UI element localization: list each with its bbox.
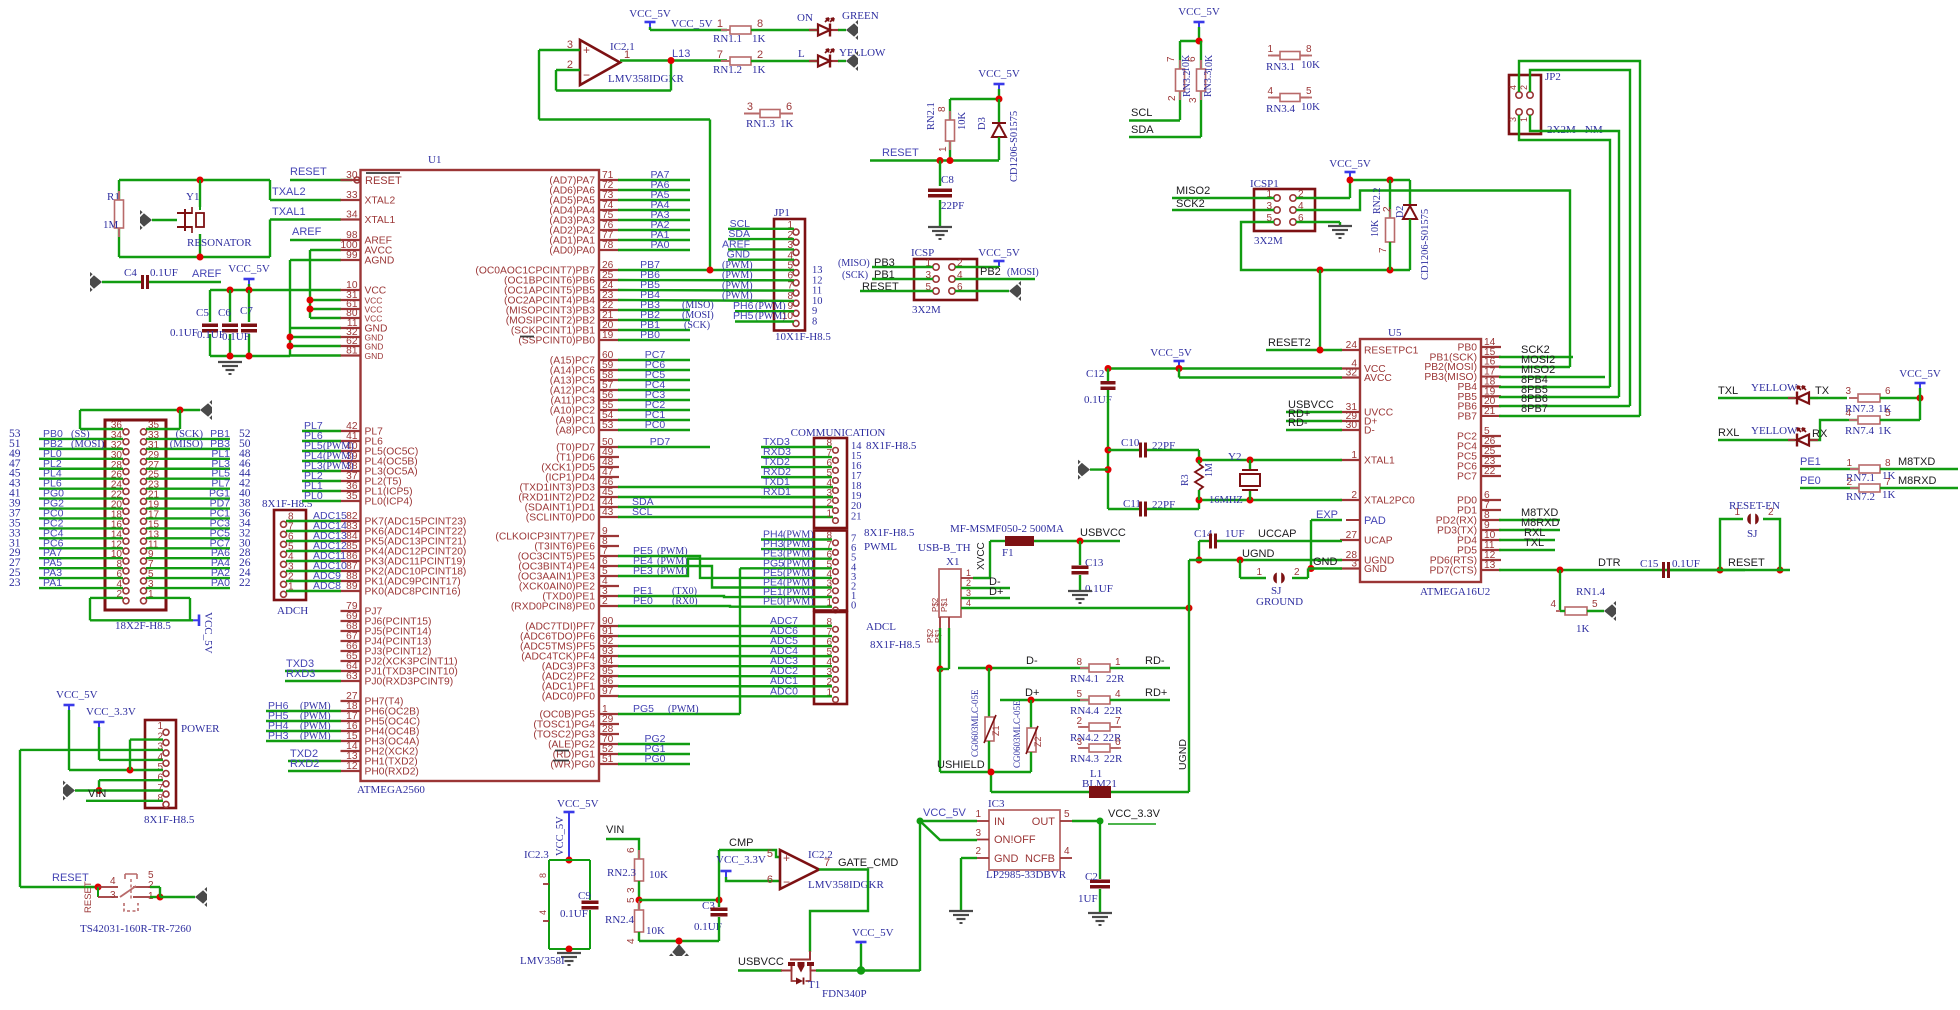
svg-text:RN4.2: RN4.2 — [1070, 732, 1099, 744]
svg-text:2: 2 — [148, 880, 154, 891]
svg-text:Y1: Y1 — [186, 191, 199, 203]
svg-text:TS42031-160R-TR-7260: TS42031-160R-TR-7260 — [80, 923, 192, 935]
svg-text:(MISO): (MISO) — [170, 439, 204, 450]
svg-text:D3: D3 — [977, 117, 988, 130]
svg-text:F1: F1 — [1002, 547, 1014, 559]
svg-text:TXL: TXL — [1718, 385, 1738, 397]
svg-text:ATMEGA2560: ATMEGA2560 — [357, 784, 425, 796]
svg-text:4: 4 — [626, 938, 637, 944]
svg-text:RN7.4: RN7.4 — [1845, 425, 1875, 437]
svg-text:4: 4 — [1508, 85, 1518, 90]
svg-text:VCC_5V: VCC_5V — [629, 8, 671, 20]
svg-text:IN: IN — [994, 816, 1005, 828]
svg-text:UGND: UGND — [1242, 548, 1274, 560]
svg-text:C4: C4 — [124, 267, 137, 279]
svg-text:+: + — [783, 851, 790, 865]
svg-text:2: 2 — [966, 578, 971, 588]
svg-text:2: 2 — [1768, 507, 1774, 518]
svg-text:(MOSI): (MOSI) — [71, 439, 105, 450]
svg-text:PB7: PB7 — [1458, 411, 1478, 422]
svg-text:C12: C12 — [1086, 368, 1104, 380]
svg-text:89: 89 — [346, 581, 358, 592]
svg-text:1: 1 — [1734, 507, 1740, 518]
svg-text:8: 8 — [538, 873, 548, 878]
svg-text:PK0(ADC8PCINT16): PK0(ADC8PCINT16) — [365, 587, 461, 598]
svg-text:AVCC: AVCC — [1364, 373, 1392, 384]
svg-text:SDA: SDA — [1131, 124, 1154, 136]
svg-text:16MHZ: 16MHZ — [1209, 495, 1243, 506]
svg-text:VCC_5V: VCC_5V — [56, 689, 98, 701]
svg-text:1: 1 — [1351, 450, 1357, 461]
svg-text:35: 35 — [346, 491, 358, 502]
svg-text:RN1.1: RN1.1 — [713, 33, 742, 45]
svg-text:VCC_3.3V: VCC_3.3V — [86, 706, 136, 718]
svg-text:IC3: IC3 — [988, 798, 1005, 810]
svg-text:10K: 10K — [1370, 219, 1381, 237]
svg-text:RN2.1: RN2.1 — [926, 102, 937, 130]
svg-text:VCC_5V: VCC_5V — [202, 612, 214, 654]
svg-text:TXAL1: TXAL1 — [272, 206, 306, 218]
svg-text:43: 43 — [602, 507, 614, 518]
svg-text:UGND: UGND — [1177, 739, 1189, 770]
svg-text:RN1.4: RN1.4 — [1576, 586, 1606, 598]
svg-text:PL0(ICP4): PL0(ICP4) — [365, 497, 413, 508]
svg-text:8X1F-H8.5: 8X1F-H8.5 — [144, 814, 195, 826]
svg-text:1: 1 — [1256, 567, 1262, 578]
svg-text:CMP: CMP — [729, 837, 753, 849]
svg-text:23: 23 — [9, 577, 21, 589]
svg-text:19: 19 — [602, 330, 614, 341]
svg-text:13: 13 — [1484, 560, 1496, 571]
svg-text:VCC: VCC — [365, 314, 383, 324]
svg-text:3X2M: 3X2M — [912, 304, 941, 316]
svg-text:SJ: SJ — [1747, 528, 1758, 540]
svg-text:PA0: PA0 — [211, 577, 230, 589]
svg-text:2: 2 — [1846, 477, 1852, 488]
svg-text:1: 1 — [938, 146, 949, 152]
svg-text:5: 5 — [767, 848, 773, 860]
svg-text:18X2F-H8.5: 18X2F-H8.5 — [115, 620, 171, 632]
svg-text:1: 1 — [1115, 657, 1121, 668]
svg-text:P$1: P$1 — [940, 597, 949, 612]
svg-text:C6: C6 — [218, 307, 231, 319]
svg-text:RXD3: RXD3 — [286, 668, 315, 680]
svg-text:VCC_3.3V: VCC_3.3V — [1108, 808, 1161, 820]
svg-text:(SCLINT0)PD0: (SCLINT0)PD0 — [526, 513, 596, 524]
svg-text:YELLOW: YELLOW — [1751, 425, 1798, 437]
svg-text:XTAL1: XTAL1 — [365, 215, 396, 226]
svg-text:2: 2 — [1294, 567, 1300, 578]
svg-text:RESET: RESET — [83, 881, 94, 913]
svg-text:RN1.3: RN1.3 — [746, 118, 776, 130]
svg-text:XTAL2: XTAL2 — [365, 196, 396, 207]
svg-text:8X1F-H8.5: 8X1F-H8.5 — [866, 440, 917, 452]
svg-text:27: 27 — [1346, 530, 1358, 541]
svg-text:GROUND: GROUND — [1256, 596, 1303, 608]
svg-text:RN1.2: RN1.2 — [713, 64, 742, 76]
svg-text:PE0: PE0 — [1800, 475, 1821, 487]
svg-text:XTAL2PC0: XTAL2PC0 — [1364, 496, 1415, 507]
svg-text:0.1UF: 0.1UF — [560, 908, 588, 920]
svg-text:RN4.4: RN4.4 — [1070, 705, 1100, 717]
svg-text:VCC_5V: VCC_5V — [557, 798, 599, 810]
svg-text:L13: L13 — [672, 48, 690, 60]
svg-text:5: 5 — [626, 897, 637, 903]
svg-text:ON: ON — [797, 12, 813, 24]
svg-text:2: 2 — [602, 596, 608, 607]
svg-text:C15: C15 — [1640, 558, 1659, 570]
svg-text:(A8)PC0: (A8)PC0 — [556, 426, 596, 437]
svg-text:RN2.4: RN2.4 — [605, 914, 635, 926]
svg-text:10K: 10K — [1301, 59, 1320, 71]
svg-text:LP2985-33DBVR: LP2985-33DBVR — [986, 869, 1067, 881]
svg-text:AREF: AREF — [192, 268, 222, 280]
svg-text:CD1206-S01575: CD1206-S01575 — [1420, 209, 1431, 280]
svg-text:VCC_3.3V: VCC_3.3V — [716, 854, 766, 866]
svg-text:10K: 10K — [646, 925, 665, 937]
svg-text:T1: T1 — [808, 979, 820, 991]
svg-text:4: 4 — [1550, 599, 1556, 610]
svg-text:Z1: Z1 — [991, 725, 1001, 736]
svg-text:RN4.3: RN4.3 — [1070, 753, 1100, 765]
svg-text:8: 8 — [157, 793, 163, 804]
svg-text:5: 5 — [1064, 809, 1070, 820]
svg-text:4: 4 — [538, 910, 548, 915]
svg-text:VCC_5V: VCC_5V — [1899, 368, 1941, 380]
svg-text:RESONATOR: RESONATOR — [187, 237, 252, 249]
svg-text:1K: 1K — [1878, 425, 1892, 437]
svg-text:1: 1 — [1846, 458, 1852, 469]
svg-text:R1: R1 — [107, 191, 120, 203]
svg-text:SCL: SCL — [1131, 107, 1152, 119]
svg-text:10K: 10K — [1301, 101, 1320, 113]
svg-text:10K: 10K — [649, 869, 668, 881]
svg-text:2: 2 — [975, 846, 981, 857]
svg-text:+: + — [583, 43, 590, 57]
svg-text:VCC_5V: VCC_5V — [1178, 6, 1220, 18]
svg-text:LMV358I: LMV358I — [520, 955, 565, 967]
svg-text:8X1F-H8.5: 8X1F-H8.5 — [870, 639, 921, 651]
svg-text:7: 7 — [1378, 247, 1389, 253]
svg-text:(SCK): (SCK) — [842, 270, 868, 281]
svg-text:0.1UF: 0.1UF — [694, 921, 722, 933]
svg-text:2: 2 — [1519, 85, 1529, 90]
svg-text:78: 78 — [602, 240, 614, 251]
svg-text:−: − — [583, 68, 590, 82]
svg-text:7: 7 — [717, 49, 723, 61]
svg-text:22: 22 — [239, 577, 251, 589]
svg-text:12: 12 — [346, 761, 358, 772]
svg-text:RXD2: RXD2 — [290, 758, 319, 770]
svg-text:VIN: VIN — [88, 788, 106, 800]
svg-text:2: 2 — [1167, 95, 1178, 101]
svg-text:VIN: VIN — [606, 824, 624, 836]
svg-text:PD7: PD7 — [650, 436, 671, 448]
svg-text:1: 1 — [717, 18, 723, 30]
svg-text:TXAL2: TXAL2 — [272, 186, 306, 198]
svg-text:C10: C10 — [1121, 437, 1140, 449]
svg-text:3: 3 — [1351, 559, 1357, 570]
svg-text:C7: C7 — [240, 305, 253, 317]
svg-text:D-: D- — [1364, 426, 1375, 437]
svg-text:10K: 10K — [1204, 54, 1215, 72]
svg-text:GND: GND — [1364, 564, 1387, 575]
svg-text:USBVCC: USBVCC — [738, 956, 784, 968]
svg-text:(SCK): (SCK) — [684, 320, 710, 331]
svg-text:VCC_5V: VCC_5V — [1150, 347, 1192, 359]
svg-text:LMV358IDGKR: LMV358IDGKR — [808, 879, 884, 891]
svg-text:8: 8 — [937, 106, 948, 112]
svg-text:21: 21 — [1484, 406, 1496, 417]
svg-text:5: 5 — [1076, 689, 1082, 700]
svg-text:6: 6 — [767, 874, 773, 886]
svg-text:PE1: PE1 — [1800, 456, 1821, 468]
svg-text:(PWM): (PWM) — [668, 704, 699, 715]
svg-text:YELLOW: YELLOW — [1751, 382, 1798, 394]
svg-text:5: 5 — [1306, 86, 1312, 97]
svg-text:C5: C5 — [196, 307, 209, 319]
svg-text:GND: GND — [365, 351, 384, 361]
svg-text:8: 8 — [1306, 44, 1312, 55]
svg-text:2: 2 — [1351, 490, 1357, 501]
svg-text:Z2: Z2 — [1033, 736, 1043, 747]
svg-text:DTR: DTR — [1598, 557, 1621, 569]
svg-text:30: 30 — [1346, 420, 1358, 431]
svg-text:U5: U5 — [1388, 327, 1402, 339]
svg-text:1K: 1K — [752, 64, 766, 76]
svg-text:PC7: PC7 — [1457, 472, 1477, 483]
svg-text:IC2.1: IC2.1 — [610, 41, 635, 53]
svg-text:YELLOW: YELLOW — [839, 47, 886, 59]
svg-text:1: 1 — [1519, 117, 1529, 122]
svg-text:PA1: PA1 — [43, 577, 62, 589]
svg-text:VCC_5V: VCC_5V — [555, 816, 566, 856]
svg-text:22: 22 — [1484, 466, 1496, 477]
svg-text:UCCAP: UCCAP — [1258, 528, 1297, 540]
svg-text:3: 3 — [747, 101, 753, 113]
svg-text:7: 7 — [1166, 56, 1177, 62]
svg-text:M8TXD: M8TXD — [1898, 456, 1935, 468]
svg-text:RESET2: RESET2 — [1268, 337, 1311, 349]
svg-text:P$1: P$1 — [934, 628, 943, 643]
svg-text:2: 2 — [1076, 716, 1082, 727]
svg-text:1UF: 1UF — [1078, 893, 1098, 905]
svg-text:34: 34 — [346, 210, 358, 221]
svg-text:63: 63 — [346, 671, 358, 682]
svg-text:SCK2: SCK2 — [1176, 198, 1205, 210]
svg-text:1K: 1K — [752, 33, 766, 45]
svg-text:1M: 1M — [1204, 463, 1215, 477]
svg-text:6: 6 — [626, 847, 637, 853]
svg-text:JP2: JP2 — [1545, 71, 1561, 83]
svg-text:U1: U1 — [428, 154, 441, 166]
svg-text:21: 21 — [851, 511, 862, 522]
svg-text:RN3.4: RN3.4 — [1266, 103, 1296, 115]
svg-text:X1: X1 — [946, 556, 959, 568]
svg-text:M8RXD: M8RXD — [1898, 475, 1937, 487]
svg-text:1UF: 1UF — [1225, 528, 1245, 540]
svg-text:FDN340P: FDN340P — [822, 988, 867, 1000]
svg-text:USB-B_TH: USB-B_TH — [918, 542, 971, 554]
svg-text:6: 6 — [1885, 386, 1891, 397]
svg-text:10X1F-H8.5: 10X1F-H8.5 — [775, 331, 831, 343]
svg-text:8: 8 — [1076, 657, 1082, 668]
svg-text:XVCC: XVCC — [976, 542, 987, 570]
svg-text:RD-: RD- — [1145, 655, 1165, 667]
svg-text:81: 81 — [346, 346, 358, 357]
svg-text:3: 3 — [626, 887, 637, 893]
svg-text:D+: D+ — [989, 586, 1003, 598]
svg-text:3X2M: 3X2M — [1254, 235, 1283, 247]
svg-text:GND: GND — [365, 342, 384, 352]
svg-text:(ADC0)PF0: (ADC0)PF0 — [542, 692, 595, 703]
svg-text:ADC0: ADC0 — [770, 685, 798, 697]
svg-text:0.1UF: 0.1UF — [197, 329, 225, 341]
svg-text:CG0603MLC-05E: CG0603MLC-05E — [1012, 700, 1022, 768]
svg-text:0.1UF: 0.1UF — [1672, 558, 1700, 570]
svg-text:TXL: TXL — [1524, 537, 1544, 549]
svg-text:USHIELD: USHIELD — [937, 759, 985, 771]
svg-text:4: 4 — [110, 876, 116, 887]
svg-text:22PF: 22PF — [941, 200, 964, 212]
svg-text:VCC_5V: VCC_5V — [978, 68, 1020, 80]
svg-text:4: 4 — [966, 598, 971, 608]
svg-text:−: − — [783, 875, 790, 889]
svg-text:CG0603MLC-05E: CG0603MLC-05E — [970, 689, 980, 757]
svg-text:1: 1 — [624, 49, 630, 61]
svg-text:4: 4 — [1845, 408, 1851, 419]
svg-text:33: 33 — [346, 190, 358, 201]
svg-text:RESET: RESET — [290, 166, 327, 178]
svg-text:RD+: RD+ — [1145, 687, 1167, 699]
svg-text:RESET: RESET — [365, 175, 402, 187]
svg-text:D-: D- — [1026, 655, 1038, 667]
svg-text:PG5: PG5 — [633, 703, 654, 715]
svg-text:1K: 1K — [1882, 489, 1896, 501]
svg-text:TX: TX — [1815, 385, 1830, 397]
svg-text:GATE_CMD: GATE_CMD — [838, 857, 898, 869]
svg-text:R3: R3 — [1180, 474, 1191, 486]
svg-text:0.1UF: 0.1UF — [170, 327, 198, 339]
svg-text:RXL: RXL — [1718, 427, 1739, 439]
svg-text:RESETPC1: RESETPC1 — [1364, 346, 1419, 357]
svg-text:8: 8 — [757, 18, 763, 30]
svg-text:2: 2 — [757, 49, 763, 61]
svg-text:0: 0 — [851, 601, 856, 612]
svg-text:PA0: PA0 — [650, 239, 669, 251]
svg-text:PH5: PH5 — [733, 310, 754, 322]
svg-text:VCC_5V: VCC_5V — [671, 18, 713, 30]
svg-text:VCC_5V: VCC_5V — [978, 247, 1020, 259]
svg-text:L: L — [798, 48, 805, 60]
svg-text:VCC_5V: VCC_5V — [923, 807, 966, 819]
svg-text:3: 3 — [1188, 97, 1199, 103]
svg-text:3: 3 — [1076, 737, 1082, 748]
svg-text:RN2.3: RN2.3 — [607, 867, 637, 879]
svg-text:USBVCC: USBVCC — [1080, 527, 1126, 539]
svg-text:RX: RX — [1812, 428, 1828, 440]
svg-text:6: 6 — [1115, 737, 1121, 748]
svg-text:SCL: SCL — [632, 506, 653, 518]
svg-text:5: 5 — [1885, 408, 1891, 419]
svg-text:LMV358IDGKR: LMV358IDGKR — [608, 73, 684, 85]
svg-text:7: 7 — [1885, 477, 1891, 488]
svg-text:IC2.3: IC2.3 — [524, 849, 549, 861]
svg-text:ADCL: ADCL — [866, 621, 896, 633]
svg-text:PH0(RXD2): PH0(RXD2) — [365, 767, 419, 778]
svg-text:RESET: RESET — [882, 147, 919, 159]
svg-text:ADCH: ADCH — [277, 605, 308, 617]
svg-text:PD7(CTS): PD7(CTS) — [1430, 566, 1477, 577]
svg-text:PAD: PAD — [1364, 515, 1386, 527]
svg-text:RN3.3: RN3.3 — [1203, 71, 1214, 97]
svg-text:0.1UF: 0.1UF — [1085, 583, 1113, 595]
svg-text:3: 3 — [975, 828, 981, 839]
svg-text:VCC_5V: VCC_5V — [1329, 158, 1371, 170]
svg-text:AGND: AGND — [365, 256, 395, 267]
svg-text:97: 97 — [602, 686, 614, 697]
svg-text:(AD0)PA0: (AD0)PA0 — [549, 246, 595, 257]
svg-text:1: 1 — [975, 809, 981, 820]
svg-text:GND: GND — [1313, 556, 1338, 568]
svg-text:8X1F-H8.5: 8X1F-H8.5 — [864, 527, 915, 539]
svg-text:51: 51 — [602, 754, 614, 765]
svg-text:32: 32 — [1346, 368, 1358, 379]
svg-text:24: 24 — [1346, 340, 1358, 351]
svg-text:OUT: OUT — [1032, 816, 1056, 828]
svg-text:0.1UF: 0.1UF — [150, 267, 178, 279]
svg-text:ATMEGA16U2: ATMEGA16U2 — [1420, 586, 1490, 598]
svg-text:ADC8: ADC8 — [313, 580, 341, 592]
svg-text:7: 7 — [1115, 716, 1121, 727]
svg-text:1: 1 — [966, 568, 971, 578]
svg-text:8: 8 — [1885, 458, 1891, 469]
svg-text:NCFB: NCFB — [1025, 853, 1055, 865]
svg-text:6: 6 — [786, 101, 792, 113]
svg-text:8: 8 — [812, 317, 817, 328]
svg-text:3: 3 — [966, 588, 971, 598]
svg-text:C13: C13 — [1085, 557, 1104, 569]
svg-text:MF-MSMF050-2 500MA: MF-MSMF050-2 500MA — [950, 523, 1064, 535]
svg-text:D2: D2 — [1395, 206, 1406, 218]
svg-text:JP1: JP1 — [774, 207, 790, 219]
svg-text:99: 99 — [346, 250, 358, 261]
svg-text:3: 3 — [1845, 386, 1851, 397]
svg-text:0.1UF: 0.1UF — [222, 331, 250, 343]
svg-text:UCAP: UCAP — [1364, 536, 1393, 547]
svg-text:PC0: PC0 — [645, 419, 666, 431]
svg-text:8PB7: 8PB7 — [1521, 403, 1548, 415]
svg-text:Y2: Y2 — [1228, 451, 1241, 463]
svg-text:C2: C2 — [1085, 871, 1098, 883]
svg-text:ON!OFF: ON!OFF — [994, 834, 1036, 846]
svg-text:3: 3 — [110, 890, 116, 901]
svg-text:4: 4 — [1267, 86, 1273, 97]
svg-text:AREF: AREF — [292, 226, 322, 238]
svg-text:GND: GND — [994, 853, 1019, 865]
svg-text:5: 5 — [1592, 599, 1598, 610]
svg-text:(RXD0PCIN8)PE0: (RXD0PCIN8)PE0 — [511, 602, 595, 613]
svg-text:C8: C8 — [941, 174, 954, 186]
svg-text:30: 30 — [346, 170, 358, 181]
svg-text:(MOSI): (MOSI) — [1007, 267, 1039, 278]
svg-text:4: 4 — [1115, 689, 1121, 700]
svg-text:(MISO): (MISO) — [838, 258, 870, 269]
svg-text:1: 1 — [1267, 44, 1273, 55]
svg-text:RN7.2: RN7.2 — [1846, 491, 1875, 503]
svg-text:4: 4 — [1064, 846, 1070, 857]
svg-text:22R: 22R — [1104, 753, 1123, 765]
